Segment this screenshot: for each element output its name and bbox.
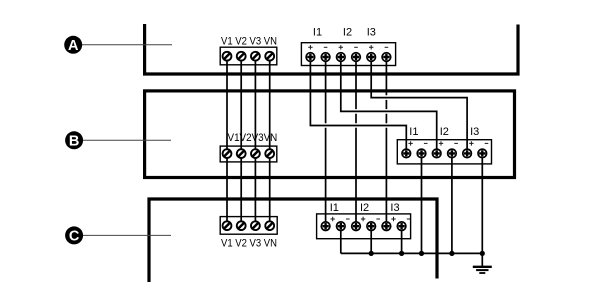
- wire B I3- to common bus: [481, 153, 483, 253]
- terminal block C voltage: [220, 217, 277, 235]
- screw terminal A I2-: [352, 53, 361, 62]
- svg-text:I3: I3: [470, 126, 479, 138]
- screw terminal B V3: [251, 149, 260, 158]
- screw terminal B I1+: [402, 149, 411, 158]
- svg-text:I2: I2: [440, 126, 449, 138]
- screw terminal B I1-: [417, 149, 426, 158]
- svg-text:I2: I2: [360, 202, 369, 214]
- wire C I3- to common bus: [401, 226, 403, 253]
- wire A I1- to C I1+ (gaps at crossings): [325, 57, 327, 226]
- junction dot bus/C I2-: [369, 251, 374, 256]
- callout leader line A: [80, 44, 172, 46]
- device B enclosure: [145, 91, 515, 178]
- screw terminal B I3-: [478, 149, 487, 158]
- svg-text:V1 V2 V3 VN: V1 V2 V3 VN: [221, 237, 277, 249]
- svg-text:I2: I2: [343, 27, 352, 39]
- label C polarity signs: [331, 217, 411, 221]
- screw terminal A V1: [223, 52, 232, 61]
- svg-text:I1: I1: [330, 202, 339, 214]
- screw terminal C V1: [223, 221, 232, 230]
- terminal block B voltage: [220, 146, 277, 162]
- svg-text:I3: I3: [367, 27, 376, 39]
- callout label C: [65, 226, 83, 244]
- ground symbol: [473, 267, 492, 273]
- device C enclosure (open-bottom box): [149, 199, 437, 282]
- svg-text:C: C: [69, 229, 80, 245]
- junction dot bus/B I1-: [419, 251, 424, 256]
- wire A I3+ to B I3+: [371, 57, 467, 153]
- screw terminal A V3: [251, 52, 260, 61]
- label A polarity signs: [308, 45, 388, 49]
- screw terminal C I2+: [352, 222, 361, 231]
- wire C I1- to common bus: [340, 226, 342, 253]
- screw terminal C V3: [251, 221, 260, 230]
- screw terminal A V2: [237, 52, 246, 61]
- screw terminal A I3+: [367, 53, 376, 62]
- wire A I1+ to B I1+: [310, 57, 406, 153]
- screw terminal A VN: [265, 52, 274, 61]
- terminal block C current: [317, 214, 411, 239]
- screw terminal C V2: [237, 221, 246, 230]
- common return bus wire: [341, 252, 483, 254]
- screw terminal C I2-: [367, 222, 376, 231]
- junction dot bus/C I3-: [399, 251, 404, 256]
- callout label B: [65, 131, 83, 149]
- screw terminal C I1+: [321, 222, 330, 231]
- wire V3 bus A-B-C: [254, 56, 256, 226]
- wire bus to ground: [481, 253, 483, 266]
- junction dot bus/B I2-: [449, 251, 454, 256]
- junction dot bus/ground: [480, 251, 485, 256]
- screw terminal A I1+: [306, 53, 315, 62]
- screw terminal A I2+: [337, 53, 346, 62]
- wire C I2- to common bus: [370, 226, 372, 253]
- screw terminal B I2-: [448, 149, 457, 158]
- svg-text:I1: I1: [409, 126, 418, 138]
- wire A I2+ to B I2+: [341, 57, 437, 153]
- screw terminal C VN: [265, 221, 274, 230]
- svg-text:A: A: [68, 38, 79, 54]
- wire V2 bus A-B-C: [240, 56, 242, 226]
- wire B I2- to common bus: [451, 153, 453, 253]
- svg-text:B: B: [69, 134, 79, 150]
- wire V1 bus A-B-C: [226, 56, 228, 226]
- device A enclosure (open-top box): [145, 24, 518, 74]
- wire A I3- to C I3+ (gaps at crossings): [385, 57, 387, 226]
- callout leader line B: [81, 139, 171, 141]
- svg-text:V1V2V3VN: V1V2V3VN: [228, 132, 278, 144]
- screw terminal A I3-: [382, 53, 391, 62]
- terminal block B current: [397, 140, 491, 164]
- label B polarity signs: [408, 141, 488, 145]
- svg-text:I1: I1: [313, 27, 322, 39]
- terminal block A current (I1 I2 I3): [301, 43, 395, 66]
- screw terminal C I3+: [382, 222, 391, 231]
- svg-text:V1 V2 V3 VN: V1 V2 V3 VN: [221, 35, 277, 47]
- callout label A: [64, 36, 82, 54]
- callout leader line C: [81, 234, 171, 236]
- screw terminal B V2: [237, 149, 246, 158]
- screw terminal C I1-: [337, 222, 346, 231]
- wire A I2- to C I2+ (gaps at crossings): [355, 57, 357, 226]
- wire VN bus A-B-C: [269, 56, 271, 226]
- screw terminal B I2+: [432, 149, 441, 158]
- terminal block A voltage (V1 V2 V3 VN): [220, 47, 277, 65]
- screw terminal A I1-: [321, 53, 330, 62]
- screw terminal C I3-: [397, 222, 406, 231]
- screw terminal B I3+: [463, 149, 472, 158]
- screw terminal B V1: [223, 149, 232, 158]
- svg-text:I3: I3: [390, 202, 399, 214]
- wire B I1- to common bus: [421, 153, 423, 253]
- screw terminal B VN: [265, 149, 274, 158]
